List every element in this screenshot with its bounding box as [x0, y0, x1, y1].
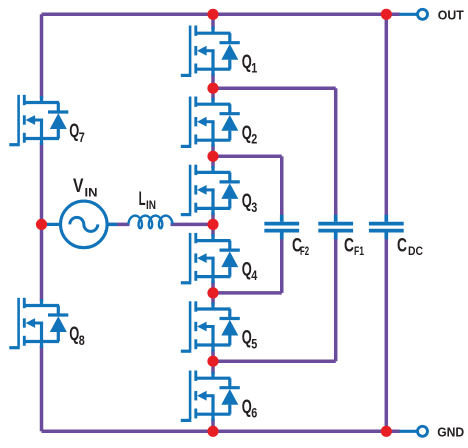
svg-text:Q: Q [242, 52, 252, 73]
svg-text:L: L [139, 189, 146, 210]
svg-text:3: 3 [251, 200, 257, 215]
svg-text:8: 8 [79, 333, 85, 348]
svg-text:F1: F1 [354, 246, 364, 258]
svg-text:IN: IN [146, 200, 156, 212]
svg-text:F2: F2 [300, 246, 309, 258]
svg-text:C: C [344, 236, 354, 257]
svg-text:Q: Q [242, 328, 252, 349]
svg-text:GND: GND [437, 424, 464, 439]
svg-text:Q: Q [69, 324, 79, 345]
svg-text:6: 6 [251, 406, 257, 421]
svg-text:7: 7 [79, 130, 85, 145]
svg-text:5: 5 [251, 336, 257, 351]
svg-text:Q: Q [242, 123, 252, 144]
svg-text:2: 2 [251, 132, 257, 147]
svg-text:Q: Q [242, 259, 252, 280]
svg-text:Q: Q [69, 121, 79, 142]
svg-text:4: 4 [251, 268, 257, 283]
svg-text:DC: DC [408, 246, 423, 258]
svg-text:V: V [73, 176, 84, 197]
svg-text:1: 1 [251, 61, 257, 76]
svg-text:Q: Q [242, 191, 252, 212]
svg-text:IN: IN [85, 187, 98, 199]
svg-text:OUT: OUT [438, 7, 464, 22]
svg-text:C: C [397, 236, 407, 257]
svg-text:Q: Q [242, 397, 252, 418]
